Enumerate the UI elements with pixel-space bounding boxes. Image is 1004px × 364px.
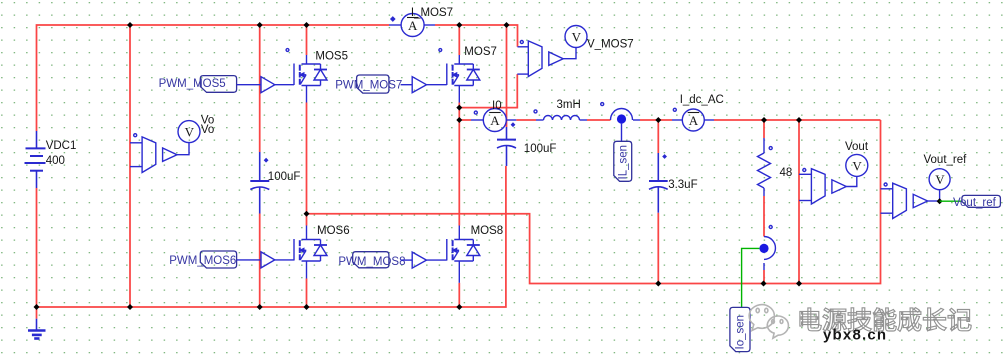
voltage sensor V_MOS7 [517,26,587,77]
wire PWM_MOS7 to buffer [401,84,413,86]
wire 3.3uF leg [657,120,659,284]
current sensor Io hump [759,237,775,271]
svg-text:MOS6: MOS6 [317,225,350,237]
wire top rail [37,25,518,131]
node bottom rail 130 [127,304,133,310]
wire Vo leg [129,25,131,307]
transistor MOS5 [286,49,327,103]
inductor 3mH [534,110,587,120]
voltage sensor Vout_ref [881,169,951,219]
node return rail 799 [796,281,802,287]
node mid 799 [796,117,802,123]
node mid 459 lower [456,117,462,123]
buffer U6 [261,252,275,268]
svg-text:Io_sen: Io_sen [735,315,747,350]
wire Io_sen link [742,248,760,307]
buffer U5 [261,77,275,93]
wire cap1 leg [259,25,261,307]
svg-text:MOS8: MOS8 [471,225,504,237]
node bottom rail 459 [456,304,462,310]
node mid 764 [761,117,767,123]
ground [28,307,46,339]
svg-text:ybx8.cn: ybx8.cn [823,327,887,344]
ammeter I_dc_AC [672,108,714,131]
watermark text [800,308,971,332]
wire Vout leg [798,120,800,284]
svg-text:Vout_ref: Vout_ref [924,154,968,166]
node bottom rail 259 [257,304,263,310]
buffer U8 [412,252,426,268]
svg-text:V: V [572,29,582,44]
wire buffer to MOS6 gate [275,259,294,261]
node bottom rail 36 [34,304,40,310]
svg-text:Vo: Vo [201,124,214,136]
wire buffer to MOS7 gate [427,84,447,86]
svg-text:A: A [490,113,500,128]
svg-text:400: 400 [46,155,65,167]
label tag Vout_ref [962,195,1001,207]
wire left bridge leg [306,25,308,307]
wire buffer to MOS5 gate [275,84,294,86]
svg-text:48: 48 [780,167,793,179]
label tag PWM_MOS5 [200,76,236,93]
current sensor IL hump [601,103,640,142]
svg-text:3.3uF: 3.3uF [668,179,697,191]
node bottom rail 306 [304,304,310,310]
svg-text:I_dc_AC: I_dc_AC [680,94,724,106]
wire Vout_ref link [940,200,962,202]
label tag PWM_MOS8 [353,252,389,268]
svg-text:PWM_MOS5: PWM_MOS5 [159,78,226,90]
transistor MOS6 [294,226,327,279]
svg-text:100uF: 100uF [524,143,557,155]
wire output mid [459,119,880,121]
wire AC link [307,120,881,284]
wire PWM_MOS5 to buffer [237,84,261,86]
svg-text:V: V [852,158,862,173]
ammeter I_MOS7 [389,14,435,37]
resistor 48 [758,138,773,229]
wire buffer to MOS8 gate [427,259,447,261]
node return rail 763 [761,281,767,287]
wire load leg [763,120,765,284]
svg-text:PWM_MOS8: PWM_MOS8 [338,256,405,268]
node top rail 506 [504,22,510,28]
wire V_MOS7 minus path [459,74,517,108]
label tag PWM_MOS6 [200,251,236,268]
label tag Io_sen [730,307,750,351]
node AC link 306 [304,211,310,217]
buffer U7 [412,77,426,93]
svg-text:MOS5: MOS5 [315,51,348,63]
svg-text:100uF: 100uF [268,171,301,183]
node mid 459 upper [456,105,462,111]
node Vout_ref junction [937,198,943,204]
svg-text:VDC1: VDC1 [46,140,77,152]
capacitor C1 100uF [250,152,269,214]
ammeter I0 [471,109,516,132]
node top rail 259 [257,22,263,28]
svg-text:Vout: Vout [845,141,869,153]
label tag IL_sen [614,141,632,181]
capacitor 3.3uF [649,153,668,213]
svg-text:PWM_MOS7: PWM_MOS7 [335,80,402,92]
svg-text:V: V [935,172,945,187]
svg-text:3mH: 3mH [557,99,581,111]
transistor MOS8 [447,226,480,283]
voltage sensor Vout [799,154,868,204]
battery VDC1 [25,131,46,188]
node top rail 306 [304,22,310,28]
wire bottom rail [37,166,506,307]
watermark icon [749,305,788,339]
label tag PWM_MOS7 [357,75,389,93]
node mid 658 [655,117,661,123]
svg-text:I_MOS7: I_MOS7 [411,7,453,19]
node return rail 658 [655,281,661,287]
svg-text:V_MOS7: V_MOS7 [587,39,634,51]
svg-text:MOS7: MOS7 [464,46,497,58]
svg-text:IL_sen: IL_sen [618,145,630,180]
wire cap2 upper [506,25,508,127]
capacitor C2 100uF [497,123,516,166]
svg-text:V: V [185,125,195,140]
wire PWM_MOS6 to buffer [237,259,261,261]
transistor MOS7 [439,49,480,103]
wire right bridge leg [458,25,460,307]
svg-text:A: A [408,18,418,33]
svg-text:PWM_MOS6: PWM_MOS6 [169,255,236,267]
svg-text:A: A [689,113,699,128]
node top rail 459 [456,22,462,28]
svg-text:I0: I0 [492,100,502,112]
voltage sensor Vo [130,121,200,173]
node top rail 130 [127,22,133,28]
svg-text:Vout_ref: Vout_ref [953,197,997,209]
wire PWM_MOS8 to buffer [401,259,413,261]
